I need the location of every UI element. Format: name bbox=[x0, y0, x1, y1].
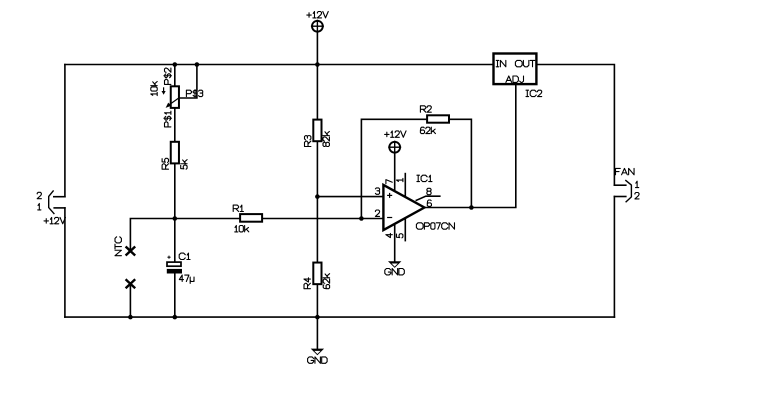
potentiometer P1 adjust arrow bbox=[162, 87, 166, 95]
resistor R2 body bbox=[427, 115, 449, 122]
resistor R5 label bbox=[162, 158, 168, 169]
supply +12V op-amp symbol bbox=[388, 141, 401, 154]
wire R1 left bbox=[175, 218, 242, 220]
junction dot NTC-node bbox=[173, 216, 178, 221]
junction dot pot-rail bbox=[173, 62, 178, 67]
op-amp plus sign bbox=[387, 193, 392, 198]
supply +12V main symbol bbox=[311, 20, 324, 33]
potentiometer P1 wiper arrow bbox=[166, 98, 179, 108]
capacitor C1 bottom plate bbox=[167, 269, 182, 274]
junction dot NTC-bottom-rail bbox=[128, 315, 133, 320]
resistor R4 body bbox=[313, 263, 321, 285]
junction dot R3-R4-pin3 bbox=[315, 194, 320, 199]
wire R2 left branch bbox=[361, 119, 429, 218]
wire NTC top branch bbox=[130, 219, 174, 252]
wire output to ADJ bbox=[424, 85, 515, 207]
op-amp pin 5 label bbox=[397, 234, 403, 238]
junction dot R2-output bbox=[469, 205, 474, 210]
connector X1 pin 1 label bbox=[38, 204, 41, 210]
ground symbol bottom bbox=[311, 349, 324, 356]
capacitor C1 top plate bbox=[167, 262, 181, 266]
regulator IC2 pin IN label bbox=[496, 60, 506, 66]
wire op-amp pin4 to GND bbox=[394, 224, 396, 262]
op-amp pin 8 label bbox=[427, 188, 431, 194]
op-amp pin 3 label bbox=[375, 188, 379, 194]
ground label bottom bbox=[308, 357, 328, 363]
wire rail to R3 bbox=[316, 65, 318, 122]
wire NTC bottom stub bbox=[129, 284, 131, 317]
op-amp pin 1 label bbox=[397, 178, 403, 181]
wire connector X1 pin2 stub bbox=[54, 196, 65, 198]
NTC pin cross top bbox=[126, 247, 136, 256]
NTC label bbox=[115, 237, 121, 256]
op-amp pin 7 label bbox=[386, 180, 392, 184]
junction dot P$3-rail bbox=[195, 62, 200, 67]
regulator IC2 box bbox=[494, 54, 537, 85]
junction dot R2-pin2 bbox=[359, 216, 364, 221]
wire left drop upper bbox=[64, 65, 66, 197]
supply +12V op-amp label bbox=[385, 131, 406, 137]
resistor R1 body bbox=[240, 214, 262, 222]
wire R2 right branch bbox=[447, 119, 471, 207]
potentiometer P1 value 10k bbox=[151, 82, 157, 96]
regulator IC2 pin ADJ label bbox=[506, 76, 524, 82]
op-amp OP07CN value bbox=[416, 223, 454, 229]
wire +12V to rail bbox=[316, 32, 318, 64]
wire pin3 line bbox=[317, 196, 383, 198]
wire P$3 branch bbox=[179, 65, 197, 99]
wire top rail bbox=[65, 64, 492, 66]
ground label op-amp bbox=[385, 269, 405, 275]
resistor R1 label bbox=[233, 205, 243, 211]
wire pot top to rail bbox=[174, 65, 176, 89]
potentiometer P1 label P$2 bbox=[164, 68, 172, 84]
wire op-amp pin5 stub bbox=[404, 218, 406, 240]
wire op-amp supply pin7 bbox=[394, 154, 396, 192]
op-amp pin 2 label bbox=[375, 210, 379, 216]
wire FAN pin2 stub bbox=[614, 196, 625, 198]
wire node to R4 bbox=[316, 197, 318, 265]
connector X1 +12V label bbox=[44, 217, 65, 223]
resistor R3 body bbox=[313, 120, 321, 142]
wire R4 to bottom rail bbox=[316, 283, 318, 318]
wire C1 to bottom rail bbox=[174, 272, 176, 318]
regulator IC2 pin OUT label bbox=[515, 60, 535, 66]
regulator IC2 label bbox=[526, 90, 542, 96]
supply +12V main label bbox=[307, 12, 328, 18]
potentiometer P1 label P$3 bbox=[186, 90, 202, 98]
junction dot C1-bottom-rail bbox=[173, 315, 178, 320]
wire R5 bottom to node bbox=[174, 161, 176, 219]
op-amp IC1 label bbox=[417, 175, 432, 181]
resistor R4 value 62k bbox=[323, 274, 329, 289]
junction dot +12V-rail bbox=[315, 62, 320, 67]
wire R1 right to op-amp pin2 bbox=[261, 218, 383, 220]
wire FAN to bottom rail bbox=[613, 197, 615, 318]
wire FAN pin1 stub bbox=[614, 184, 625, 186]
resistor R3 value 82k bbox=[323, 131, 329, 146]
junction dot R4-bottom-rail bbox=[315, 315, 320, 320]
wire node to C1 bbox=[174, 219, 176, 264]
potentiometer P1 body bbox=[171, 86, 179, 108]
resistor R2 label bbox=[420, 106, 431, 112]
capacitor C1 value 47u bbox=[179, 275, 194, 283]
wire op-amp pin1 stub bbox=[404, 174, 406, 197]
op-amp pin 4 label bbox=[386, 233, 392, 237]
connector FAN pin 1 label bbox=[636, 181, 639, 187]
capacitor C1 label bbox=[179, 253, 190, 259]
wire op-amp pin8 stub bbox=[416, 196, 440, 200]
NTC pin cross bottom bbox=[126, 279, 136, 288]
potentiometer P1 label P$1 bbox=[164, 111, 172, 127]
resistor R5 value 5k bbox=[181, 160, 187, 170]
wire bottom rail bbox=[65, 316, 615, 318]
connector FAN bracket bbox=[625, 180, 631, 202]
wire R3 bottom to node bbox=[316, 140, 318, 197]
connector FAN label bbox=[616, 168, 635, 174]
wire pot bottom to R5 bbox=[174, 106, 176, 144]
resistor R5 body bbox=[171, 142, 179, 164]
wire IC2 out to fan bbox=[538, 65, 615, 186]
capacitor C1 plus mark bbox=[167, 256, 170, 259]
resistor R3 label bbox=[305, 136, 311, 147]
connector FAN pin 2 label bbox=[635, 193, 639, 199]
connector X1 pin 2 label bbox=[37, 192, 41, 198]
resistor R1 value 10k bbox=[235, 226, 249, 232]
wire bottom rail to GND bbox=[316, 317, 318, 349]
op-amp pin 6 label bbox=[427, 200, 431, 206]
connector X1 bracket bbox=[49, 190, 55, 214]
op-amp minus sign bbox=[387, 217, 392, 219]
wire left drop lower bbox=[64, 208, 66, 317]
wire connector X1 pin1 stub bbox=[54, 207, 65, 209]
resistor R4 label bbox=[304, 278, 310, 289]
op-amp IC1 triangle bbox=[383, 185, 424, 230]
ground symbol op-amp bbox=[388, 261, 401, 268]
resistor R2 value 62k bbox=[420, 127, 435, 133]
